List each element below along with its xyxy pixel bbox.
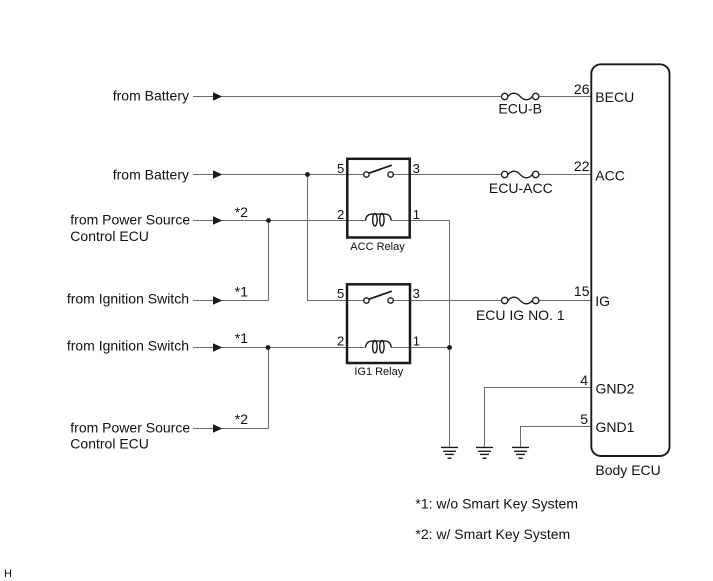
- svg-text:2: 2: [337, 333, 344, 348]
- svg-text:ACC: ACC: [595, 168, 625, 184]
- svg-text:1: 1: [413, 333, 420, 348]
- svg-text:1: 1: [413, 207, 420, 222]
- svg-text:*2: *2: [235, 411, 248, 427]
- svg-text:5: 5: [337, 286, 344, 301]
- svg-text:from Battery: from Battery: [113, 88, 189, 104]
- svg-text:2: 2: [337, 207, 344, 222]
- svg-text:Control ECU: Control ECU: [70, 228, 149, 244]
- svg-text:from Power Source: from Power Source: [70, 212, 190, 228]
- svg-text:4: 4: [580, 372, 588, 388]
- svg-text:ACC Relay: ACC Relay: [350, 241, 405, 253]
- svg-text:3: 3: [413, 161, 420, 176]
- svg-text:Body ECU: Body ECU: [595, 462, 660, 478]
- svg-text:Control ECU: Control ECU: [70, 435, 149, 451]
- svg-text:15: 15: [574, 283, 590, 299]
- svg-text:from Ignition Switch: from Ignition Switch: [67, 290, 189, 306]
- svg-text:ECU-ACC: ECU-ACC: [489, 180, 553, 196]
- svg-text:GND2: GND2: [596, 381, 635, 397]
- svg-text:ECU-B: ECU-B: [498, 101, 542, 117]
- svg-text:26: 26: [574, 81, 590, 97]
- svg-text:22: 22: [574, 158, 590, 174]
- svg-text:*2: *2: [235, 204, 248, 220]
- svg-text:*1: w/o Smart Key System: *1: w/o Smart Key System: [415, 495, 578, 511]
- svg-text:5: 5: [580, 411, 588, 427]
- svg-text:IG1 Relay: IG1 Relay: [354, 366, 403, 378]
- svg-text:from Battery: from Battery: [113, 166, 189, 182]
- svg-text:H: H: [4, 568, 12, 580]
- svg-text:ECU IG NO. 1: ECU IG NO. 1: [476, 307, 565, 323]
- svg-text:*1: *1: [235, 330, 248, 346]
- svg-text:3: 3: [413, 286, 420, 301]
- svg-text:*1: *1: [235, 284, 248, 300]
- svg-text:BECU: BECU: [595, 89, 634, 105]
- svg-text:GND1: GND1: [596, 419, 635, 435]
- svg-text:from Ignition Switch: from Ignition Switch: [67, 338, 189, 354]
- svg-text:5: 5: [337, 161, 344, 176]
- svg-text:*2: w/ Smart Key System: *2: w/ Smart Key System: [415, 526, 570, 542]
- svg-text:from Power Source: from Power Source: [70, 419, 190, 435]
- svg-text:IG: IG: [595, 293, 610, 309]
